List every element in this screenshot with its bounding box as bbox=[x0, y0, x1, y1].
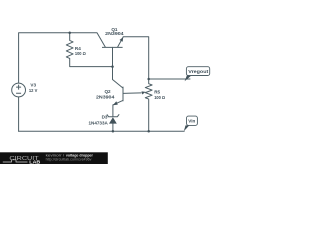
watermark logo wire pulse bbox=[3, 160, 28, 162]
Q2 emitter lead bbox=[113, 100, 123, 105]
svg-text:R4: R4 bbox=[75, 46, 81, 51]
Q1 emitter lead bbox=[118, 37, 124, 47]
watermark: CircuitLab bar bbox=[0, 152, 108, 164]
Q2 collector lead bbox=[113, 80, 123, 89]
Q2 base bar bbox=[122, 87, 124, 102]
junction: D3 on bottom bus bbox=[112, 130, 115, 133]
svg-text:12 V: 12 V bbox=[29, 88, 38, 93]
svg-text:D3: D3 bbox=[102, 115, 108, 120]
wire: V3 positive up to top rail and right to Q1 collector bbox=[19, 33, 97, 84]
wire: Q2 emitter down to D3 cathode bbox=[112, 105, 114, 116]
svg-text:Q2: Q2 bbox=[104, 89, 111, 94]
transistor Q1 (NPN 2N3904, rotated, base down) bbox=[97, 33, 123, 48]
svg-text:V3: V3 bbox=[30, 82, 36, 87]
wire: R4 bottom over to Q1 base node bbox=[70, 58, 113, 66]
D3 anode triangle bbox=[109, 117, 117, 123]
label Q1 2N3904 bbox=[105, 27, 124, 36]
label Q2 2N3904 bbox=[96, 89, 115, 100]
junction: R5 bottom on bottom bus bbox=[147, 130, 150, 133]
svg-text:http://circuitlab.com/cvs496v: http://circuitlab.com/cvs496v bbox=[46, 158, 92, 162]
wire: Q2 base to R5 wiper bbox=[123, 92, 141, 95]
net flag Vregout bbox=[185, 67, 210, 82]
net flag Vin bbox=[184, 116, 198, 131]
junction: output node at R5 top bbox=[147, 78, 150, 81]
label D3 1N4733A bbox=[89, 115, 109, 126]
wire: V3 negative down to bottom bus bbox=[18, 97, 20, 132]
Q2 emitter arrow bbox=[113, 101, 118, 105]
R5 wiper arrow bbox=[142, 91, 146, 94]
svg-text:100 Ω: 100 Ω bbox=[154, 95, 165, 100]
wire: Q1 base down to Q2 collector bbox=[112, 47, 114, 79]
wire: output node to Vregout flag bbox=[149, 78, 190, 80]
svg-text:Vregout: Vregout bbox=[188, 69, 208, 75]
svg-text:Vin: Vin bbox=[188, 119, 195, 125]
svg-text:100 Ω: 100 Ω bbox=[75, 51, 86, 56]
svg-text:2N3904: 2N3904 bbox=[96, 95, 115, 100]
resistor R4 bbox=[66, 33, 73, 59]
label R5 100 Ohm bbox=[154, 90, 165, 100]
junction: R4 top on top rail bbox=[68, 32, 71, 35]
junction: R4 bottom on Q1 base line bbox=[111, 65, 114, 68]
Q1 base bar bbox=[102, 46, 123, 48]
Q1 collector lead bbox=[97, 33, 105, 47]
wire: D3 anode down to bottom bus bbox=[112, 124, 114, 132]
svg-text:LAB: LAB bbox=[29, 160, 41, 165]
wire: bottom bus (Vin net) bbox=[19, 130, 185, 132]
label V3 12 V bbox=[29, 82, 38, 93]
wire: Q1 emitter right and down to output node bbox=[123, 37, 149, 79]
zener diode D3 bbox=[107, 114, 119, 116]
svg-text:1N4733A: 1N4733A bbox=[89, 121, 109, 126]
label R4 100 Ohm bbox=[75, 46, 86, 56]
transistor Q2 (NPN 2N3904, mirrored, base right) bbox=[113, 80, 124, 105]
potentiometer R5 bbox=[145, 79, 152, 131]
Q1 emitter arrow bbox=[120, 37, 124, 42]
svg-text:2N3904: 2N3904 bbox=[105, 31, 124, 36]
D3 cathode bar with zener wings bbox=[107, 114, 119, 116]
voltage source V3 bbox=[12, 83, 26, 97]
svg-text:R5: R5 bbox=[154, 90, 160, 95]
